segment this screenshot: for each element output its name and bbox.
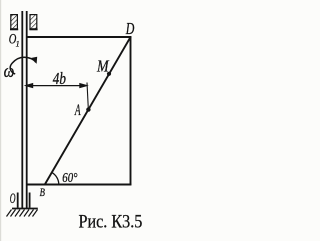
ground line [12,208,38,210]
svg-text:1: 1 [16,40,20,49]
frame top line [26,36,131,38]
svg-text:O: O [10,191,16,207]
frame bottom line [26,184,131,186]
svg-text:4b: 4b [53,71,67,89]
scan edge left [0,0,1,241]
dimension 4b line [26,84,87,88]
svg-text:D: D [125,20,135,39]
frame right line [130,36,132,185]
point A [86,107,90,111]
svg-text:ω: ω [4,60,15,81]
node O1 label [9,30,20,49]
shaft O1-O (double line) [22,11,26,208]
svg-text:M: M [96,57,109,76]
omega rotation arrow [10,57,37,74]
bearing top left block [10,15,18,30]
angle arc 60 at B [52,172,59,184]
bearing bottom (journal) [18,193,30,208]
dimension extension line to A [87,83,88,109]
svg-text:Рис. К3.5: Рис. К3.5 [79,210,143,232]
svg-text:B: B [40,187,46,200]
point M [107,72,111,76]
rod BD diagonal [45,37,131,185]
svg-text:60°: 60° [62,170,77,185]
bearing top right block [29,15,37,30]
svg-text:A: A [74,102,81,119]
ground hatching [7,210,38,217]
